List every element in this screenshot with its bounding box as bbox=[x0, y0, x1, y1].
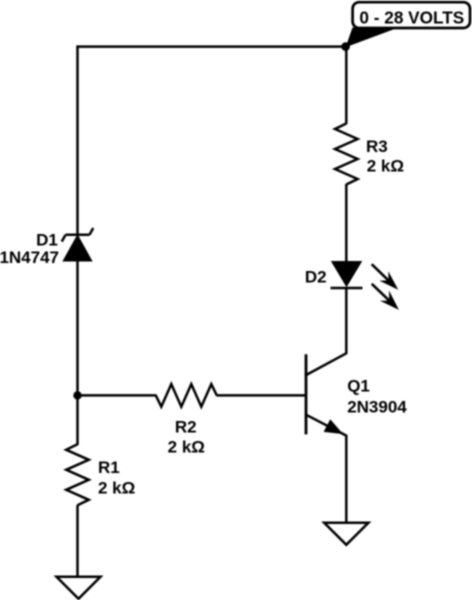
svg-text:R3: R3 bbox=[366, 137, 388, 156]
svg-text:R1: R1 bbox=[98, 458, 120, 477]
wire Q1 collector to D2 cathode bbox=[345, 288, 348, 354]
svg-text:D1: D1 bbox=[36, 231, 58, 250]
wire junction to R2 bbox=[78, 394, 157, 397]
resistor R1 bbox=[66, 444, 89, 505]
node V+ (top rail) bbox=[341, 42, 350, 51]
LED D2 bbox=[331, 262, 363, 289]
wire D2 anode to R3 bbox=[345, 184, 348, 263]
LED light arrow 1 bbox=[372, 264, 399, 290]
wire D1 anode to junction node bbox=[76, 260, 79, 396]
zener diode D1 bbox=[62, 228, 93, 261]
svg-text:Q1: Q1 bbox=[347, 377, 370, 396]
wire Q1 emitter to right ground bbox=[345, 435, 348, 523]
wire top rail bbox=[78, 45, 346, 48]
wire junction to R1 bbox=[76, 395, 79, 445]
svg-text:2 kΩ: 2 kΩ bbox=[168, 438, 205, 457]
wire R3 to top node bbox=[345, 47, 348, 124]
svg-text:2 kΩ: 2 kΩ bbox=[98, 479, 135, 498]
wire R2 to Q1 base bbox=[217, 394, 307, 397]
svg-text:R2: R2 bbox=[175, 418, 197, 437]
LED light arrow 2 bbox=[372, 284, 399, 310]
transistor Q1 bbox=[305, 353, 346, 435]
callout box 0 - 28 VOLTS bbox=[353, 2, 470, 28]
resistor R3 bbox=[335, 124, 358, 185]
ground (left) bbox=[57, 577, 101, 599]
wire left vertical from top rail to D1 cathode bbox=[76, 45, 79, 236]
svg-text:D2: D2 bbox=[305, 267, 327, 286]
svg-text:2N3904: 2N3904 bbox=[347, 397, 407, 416]
svg-text:1N4747: 1N4747 bbox=[0, 248, 59, 267]
node junction (D1/R1/R2) bbox=[73, 391, 81, 399]
resistor R2 bbox=[156, 384, 217, 407]
ground (right) bbox=[324, 523, 368, 545]
svg-text:2 kΩ: 2 kΩ bbox=[367, 156, 404, 175]
callout tail bbox=[346, 28, 399, 48]
wire R1 to left ground bbox=[76, 505, 79, 577]
svg-text:0 - 28 VOLTS: 0 - 28 VOLTS bbox=[359, 8, 464, 28]
